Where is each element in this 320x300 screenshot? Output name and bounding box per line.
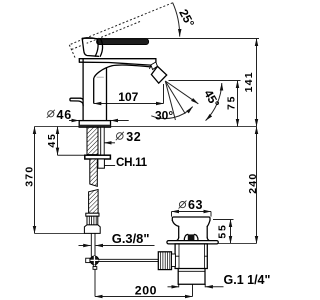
svg-text:107: 107 [118, 90, 138, 104]
svg-text:45: 45 [46, 132, 58, 147]
svg-text:63: 63 [188, 198, 203, 212]
svg-text:55: 55 [216, 223, 228, 238]
svg-text:75: 75 [226, 95, 238, 110]
svg-text:32: 32 [126, 130, 141, 144]
svg-text:G.3/8": G.3/8" [112, 231, 150, 246]
svg-text:370: 370 [23, 166, 35, 187]
svg-text:240: 240 [247, 173, 259, 194]
svg-text:46: 46 [57, 108, 73, 122]
svg-text:30°: 30° [155, 108, 173, 122]
svg-text:200: 200 [135, 284, 157, 298]
svg-text:141: 141 [243, 71, 255, 92]
svg-text:CH.11: CH.11 [116, 156, 148, 169]
svg-text:G.1 1/4": G.1 1/4" [224, 273, 271, 287]
